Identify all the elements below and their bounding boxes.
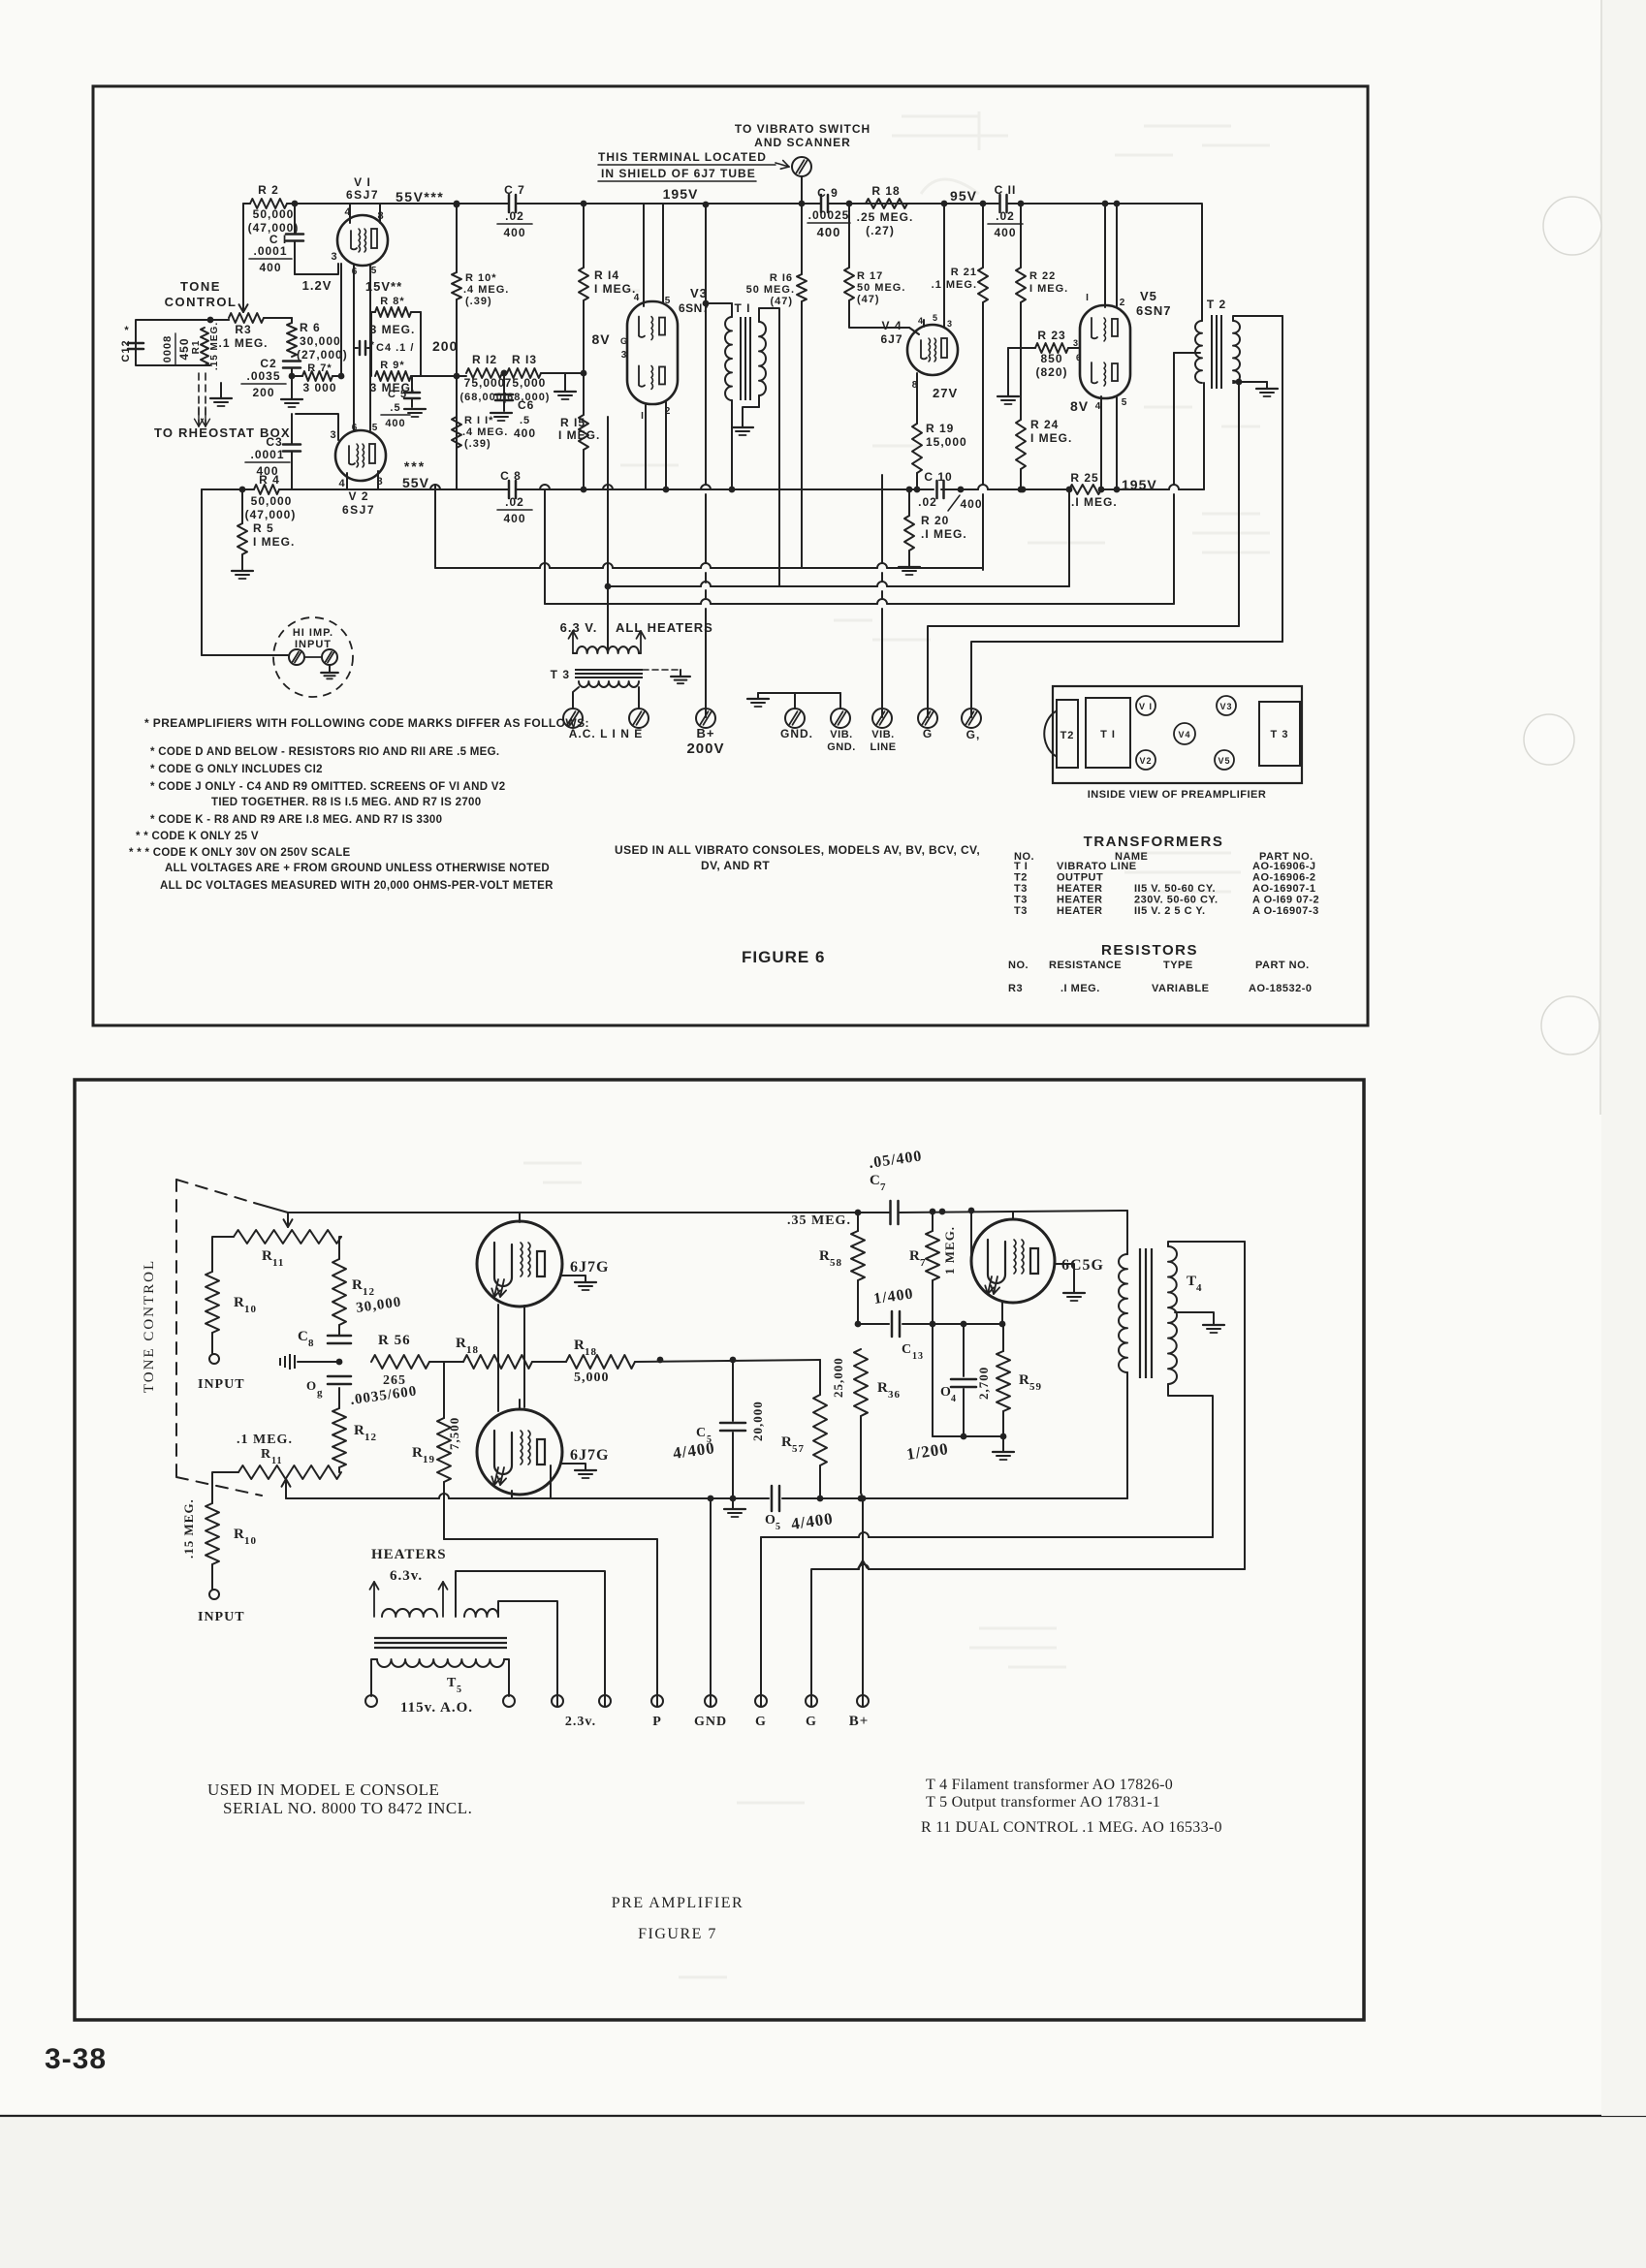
resistor R6	[291, 318, 293, 323]
svg-text:400: 400	[503, 226, 525, 239]
P cathode line from R19	[444, 1538, 657, 1540]
svg-text:20,000: 20,000	[750, 1401, 765, 1441]
svg-text:.15 MEG.: .15 MEG.	[181, 1498, 196, 1559]
svg-text:T3: T3	[1014, 895, 1028, 906]
svg-text:R 20: R 20	[921, 514, 949, 527]
svg-text:6J7G: 6J7G	[570, 1447, 609, 1464]
potentiometer R3	[229, 313, 264, 323]
resistor R1	[201, 328, 208, 365]
node V1 cathode junction	[338, 373, 345, 380]
ground under C2	[291, 368, 293, 399]
svg-text:265: 265	[383, 1373, 406, 1388]
potentiometer R11 lower	[238, 1465, 341, 1479]
svg-text:400: 400	[960, 497, 982, 511]
svg-text:V3: V3	[1219, 702, 1232, 711]
svg-text:R I5: R I5	[560, 416, 586, 429]
resistor R18 second	[532, 1361, 566, 1363]
svg-text:195V: 195V	[663, 186, 699, 202]
punch hole middle	[1524, 714, 1574, 765]
svg-text:4: 4	[1196, 1282, 1203, 1294]
capacitor O4	[963, 1324, 965, 1376]
svg-text:R 6: R 6	[300, 321, 321, 334]
svg-text:*: *	[370, 340, 375, 351]
svg-text:30,000: 30,000	[300, 334, 341, 348]
R10/R11 vertical continues	[456, 376, 458, 489]
svg-text:6C5G: 6C5G	[1061, 1257, 1104, 1274]
svg-text:AO-16906-2: AO-16906-2	[1252, 872, 1316, 884]
tube V5 6SN7	[1080, 305, 1130, 398]
svg-text:8: 8	[308, 1338, 315, 1349]
svg-text:200V: 200V	[686, 740, 724, 757]
svg-text:I MEG.: I MEG.	[558, 428, 600, 442]
ground under C6	[491, 412, 512, 414]
heater drop wire	[607, 417, 609, 649]
6C5G ground	[1055, 1264, 1074, 1292]
capacitor C3	[291, 414, 293, 444]
V3 plate pin4 wire	[643, 204, 645, 306]
resistor R20	[908, 489, 910, 516]
6C5G cathode wire	[1001, 1303, 1003, 1324]
capacitor C5 second	[771, 1486, 774, 1511]
svg-text:.0001: .0001	[250, 448, 284, 461]
R10 lower lead	[211, 1564, 213, 1590]
svg-text:18: 18	[466, 1344, 479, 1356]
svg-text:DV, AND RT: DV, AND RT	[701, 859, 770, 872]
svg-text:400: 400	[385, 418, 405, 429]
svg-text:C12: C12	[120, 339, 132, 362]
resistor R57	[819, 1360, 821, 1395]
bus C hops	[701, 582, 711, 586]
svg-text:ALL VOLTAGES ARE + FROM GRO: ALL VOLTAGES ARE + FROM GROUND UNLESS OT…	[165, 863, 550, 874]
svg-text:(.39): (.39)	[464, 438, 491, 450]
resistor R22	[1020, 204, 1022, 268]
potentiometer R11 upper	[234, 1230, 341, 1244]
svg-text:(.27): (.27)	[866, 224, 895, 237]
svg-text:.0008: .0008	[162, 335, 174, 367]
main B+ bus wire	[295, 203, 509, 205]
svg-text:INPUT: INPUT	[198, 1610, 245, 1624]
svg-text:AND SCANNER: AND SCANNER	[754, 136, 851, 149]
svg-text:18: 18	[585, 1346, 597, 1358]
T2 secondary bottom lead	[1233, 381, 1239, 382]
node R4/R5	[239, 487, 246, 493]
svg-text:19: 19	[423, 1454, 435, 1465]
svg-text:G: G	[755, 1715, 767, 1729]
node R10 top	[454, 202, 460, 208]
svg-text:AO-16906-J: AO-16906-J	[1252, 861, 1316, 872]
G terminal screw	[918, 709, 937, 728]
wire T1 primary top to B+ line	[706, 302, 732, 304]
V5 pin4 wire down	[1100, 396, 1102, 489]
resistor R7 fig7	[932, 1212, 934, 1231]
svg-text:V5: V5	[1218, 756, 1230, 766]
T2 secondary top lead	[1233, 316, 1282, 321]
svg-text:TO VIBRATO SWITCH: TO VIBRATO SWITCH	[735, 122, 870, 136]
svg-text:VIBRATO LINE: VIBRATO LINE	[1057, 861, 1137, 872]
svg-text:IN SHIELD OF 6J7 TUBE: IN SHIELD OF 6J7 TUBE	[601, 167, 756, 180]
capacitor C10	[935, 481, 938, 498]
6J7G tube2 cathode stub down	[511, 1491, 513, 1498]
svg-text:R 7*: R 7*	[307, 362, 332, 374]
svg-text:12: 12	[364, 1432, 377, 1443]
T5 primary winding	[377, 1659, 504, 1667]
svg-text:R 9*: R 9*	[380, 360, 404, 371]
svg-text:(47): (47)	[770, 296, 793, 307]
svg-text:C4 .1 /: C4 .1 /	[376, 342, 414, 354]
svg-text:3-38: 3-38	[45, 2043, 107, 2075]
node C13 left	[855, 1321, 862, 1328]
capacitor C8	[508, 481, 511, 498]
R10 upper lead to input	[211, 1333, 213, 1354]
bus B wire	[435, 567, 540, 569]
svg-text:59: 59	[1029, 1381, 1042, 1393]
B+ terminal drop	[862, 1498, 864, 1706]
resistor R12	[466, 368, 502, 378]
svg-text:R 11 DUAL CONTROL .1 ME: R 11 DUAL CONTROL .1 MEG. AO 16533-0	[921, 1819, 1222, 1836]
svg-text:* CODE K - R8 AND R9 ARE: * CODE K - R8 AND R9 ARE I.8 MEG. AND R7…	[150, 814, 442, 826]
VIB LINE drop	[881, 475, 883, 563]
svg-text:USED IN ALL VIBRATO CONSOLES,: USED IN ALL VIBRATO CONSOLES, MODELS AV,…	[615, 843, 980, 857]
svg-text:6SN7: 6SN7	[1136, 303, 1172, 318]
R3 wiper arrow from R2	[242, 204, 244, 299]
capacitor C11	[998, 195, 1001, 212]
svg-text:(47): (47)	[857, 294, 880, 305]
svg-text:GND.: GND.	[780, 727, 813, 740]
bus D right vertical to T2 tap	[1173, 353, 1175, 485]
svg-text:6.3v.: 6.3v.	[390, 1568, 423, 1584]
svg-text:400: 400	[994, 226, 1016, 239]
resistor R10 lower	[206, 1503, 219, 1564]
svg-text:T I: T I	[1100, 729, 1116, 740]
svg-text:TIED TOGETHER. R8 IS I.5 M: TIED TOGETHER. R8 IS I.5 MEG. AND R7 IS …	[211, 797, 481, 808]
T2 primary top lead	[1201, 205, 1203, 321]
svg-text:THIS TERMINAL LOCATED: THIS TERMINAL LOCATED	[598, 150, 767, 164]
svg-text:I: I	[641, 411, 645, 422]
svg-text:7: 7	[920, 1257, 927, 1269]
svg-text:TONE: TONE	[180, 279, 221, 294]
svg-text:5: 5	[372, 423, 379, 433]
svg-text:R3: R3	[235, 323, 251, 336]
node R21 top	[980, 201, 987, 207]
svg-text:4: 4	[338, 478, 345, 489]
6.3V heater arrows	[573, 652, 577, 654]
wire C12 loop	[136, 320, 229, 351]
2.3v terminal drops	[498, 1601, 557, 1706]
svg-text:10: 10	[244, 1535, 257, 1547]
svg-text:R3: R3	[1008, 983, 1023, 994]
svg-text:II5 V. 2 5 C Y.: II5 V. 2 5 C Y.	[1134, 905, 1206, 917]
G line vertical to T2 secondary bottom	[1238, 382, 1240, 626]
V2 pin8 wire down	[377, 471, 379, 489]
capacitor C9	[820, 195, 823, 212]
svg-text:* PREAMPLIFIERS WITH FOLLOWI: * PREAMPLIFIERS WITH FOLLOWING CODE MARK…	[144, 716, 589, 730]
svg-text:T3: T3	[1014, 905, 1028, 917]
svg-text:HI IMP.: HI IMP.	[293, 627, 333, 639]
svg-text:HEATER: HEATER	[1057, 895, 1102, 906]
node C13 right	[930, 1321, 936, 1328]
svg-text:15V**: 15V**	[365, 279, 402, 294]
node C7 right	[939, 1209, 946, 1215]
svg-text:8V: 8V	[591, 331, 610, 347]
6J7G tube2 plate stub down	[550, 1465, 552, 1498]
main coupling line y=505	[345, 488, 508, 490]
punch hole top	[1543, 197, 1601, 255]
svg-text:.I MEG.: .I MEG.	[1060, 983, 1100, 994]
svg-text:V 2: V 2	[348, 489, 368, 503]
dashed tone control boundary	[175, 1180, 177, 1484]
svg-text:3: 3	[331, 251, 337, 263]
P terminal drop	[656, 1539, 658, 1706]
svg-text:HEATER: HEATER	[1057, 905, 1102, 917]
svg-text:1 MEG.: 1 MEG.	[942, 1226, 957, 1275]
ground under R59	[1002, 1436, 1004, 1451]
R8/R9 left vertical	[370, 312, 372, 376]
resistor R10	[456, 205, 458, 272]
svg-text:HEATERS: HEATERS	[371, 1547, 447, 1562]
svg-text:C6: C6	[518, 398, 534, 412]
ground under R5	[232, 570, 253, 572]
svg-text:7,500: 7,500	[447, 1417, 461, 1450]
node R7 left	[289, 373, 296, 380]
ground T2 secondary bottom	[1256, 388, 1278, 390]
node B+ top	[703, 202, 710, 208]
T5 winding leads	[371, 1659, 377, 1696]
svg-text:OUTPUT: OUTPUT	[1057, 872, 1103, 884]
V1 cathode pin3 wire down	[340, 264, 342, 376]
svg-text:RESISTORS: RESISTORS	[1101, 942, 1198, 959]
svg-text:.25 MEG.: .25 MEG.	[857, 210, 914, 224]
svg-text:3: 3	[947, 319, 953, 329]
6C5G grid wire	[970, 1211, 972, 1261]
svg-text:R: R	[261, 1447, 271, 1462]
svg-text:.1 MEG.: .1 MEG.	[237, 1433, 293, 1447]
input terminal screw left	[289, 649, 304, 665]
svg-text:A O-I69 07-2: A O-I69 07-2	[1252, 895, 1319, 906]
R8/R9 right vertical	[420, 312, 422, 376]
wire to R3	[210, 319, 229, 321]
svg-text:V I: V I	[354, 175, 371, 189]
svg-text:5: 5	[457, 1685, 462, 1695]
svg-text:200: 200	[432, 338, 458, 354]
svg-text:4: 4	[634, 293, 641, 303]
svg-text:5: 5	[665, 296, 672, 306]
svg-text:R I I*: R I I*	[464, 415, 493, 426]
bus B hops	[540, 563, 550, 568]
V3 pin5 wire	[662, 204, 664, 302]
capacitor C6	[503, 373, 505, 394]
svg-text:V 4: V 4	[881, 319, 902, 332]
svg-text:R 4: R 4	[259, 473, 280, 487]
tube V3 6SN7	[627, 301, 678, 404]
svg-text:25,000: 25,000	[831, 1357, 845, 1398]
tube 6C5G	[971, 1219, 1055, 1303]
T1 block inside view	[1086, 698, 1130, 768]
T3 block inside view	[1259, 702, 1300, 766]
node R17 top	[846, 201, 853, 207]
ground stub R23	[1007, 348, 1009, 395]
svg-text:R 24: R 24	[1030, 418, 1059, 431]
svg-text:6SJ7: 6SJ7	[342, 503, 375, 517]
T4 secondary bottom lead	[1168, 1384, 1213, 1537]
6C5G plate stub	[1012, 1212, 1014, 1219]
svg-text:T3: T3	[1014, 883, 1028, 895]
6J7G tube2 stubs up	[497, 1362, 499, 1411]
svg-text:R 8*: R 8*	[380, 296, 404, 307]
G prime vertical to T2 secondary top	[1282, 316, 1283, 642]
svg-text:R 23: R 23	[1037, 329, 1065, 342]
V4 grid cap stub	[923, 320, 925, 327]
node V5 plate top	[1114, 201, 1121, 207]
svg-text:(.39): (.39)	[465, 296, 492, 307]
svg-text:5,000: 5,000	[574, 1370, 610, 1385]
svg-text:C2: C2	[260, 357, 276, 370]
svg-text:***: ***	[404, 458, 426, 474]
svg-text:NO.: NO.	[1008, 960, 1029, 971]
terminal circles bottom row	[365, 1695, 377, 1707]
svg-text:T I: T I	[735, 301, 751, 315]
V2 circle inside view	[1136, 750, 1155, 770]
svg-text:T 3: T 3	[1271, 729, 1289, 740]
resistor R25	[1069, 485, 1101, 494]
R7 lower vertical	[932, 1324, 934, 1436]
faint bleed-through ghosts	[523, 111, 1270, 1977]
T3 dashed ground lead	[643, 669, 681, 671]
capacitor C2	[283, 360, 301, 362]
svg-text:I MEG.: I MEG.	[1029, 283, 1068, 295]
6J7G lower top stub	[519, 1400, 521, 1409]
bus C right vertical	[1068, 491, 1070, 586]
svg-text:R I2: R I2	[472, 353, 497, 366]
svg-text:LINE: LINE	[870, 741, 896, 753]
GND terminal drop	[710, 1498, 712, 1706]
resistor R58	[857, 1213, 859, 1231]
VIB LINE terminal screw	[872, 709, 892, 728]
svg-text:g: g	[317, 1387, 324, 1399]
svg-text:850: 850	[1040, 352, 1062, 365]
node C8-Cg mid	[336, 1359, 343, 1366]
svg-text:95V: 95V	[950, 188, 977, 204]
svg-text:C3: C3	[266, 435, 282, 449]
V4 circle inside view	[1174, 723, 1195, 744]
svg-text:* CODE G ONLY INCLUDES CI: * CODE G ONLY INCLUDES CI2	[150, 764, 323, 775]
svg-text:C 7: C 7	[504, 183, 525, 197]
svg-text:V4: V4	[1178, 730, 1190, 740]
svg-text:.5: .5	[520, 415, 530, 426]
svg-text:58: 58	[830, 1257, 842, 1269]
node R24 bottom	[1018, 487, 1025, 493]
svg-text:RESISTANCE: RESISTANCE	[1049, 960, 1122, 971]
resistor R7	[292, 375, 302, 377]
svg-text:11: 11	[271, 1456, 282, 1466]
transformer T4	[1119, 1254, 1127, 1372]
bottom line 1/200 network	[933, 1435, 1003, 1437]
svg-text:50 MEG.: 50 MEG.	[857, 282, 905, 294]
G2 terminal line to T4 secondary top	[811, 1569, 859, 1706]
resistor R8	[371, 311, 375, 313]
node R36 bottom	[858, 1496, 865, 1502]
svg-text:C 5: C 5	[388, 389, 407, 400]
V5 pin1 wire	[1104, 204, 1106, 307]
wire R9 to R12	[411, 375, 466, 377]
capacitor C5	[411, 376, 413, 392]
svg-text:R 21: R 21	[951, 267, 977, 278]
V3 pin1 wire down	[645, 405, 647, 489]
node R3 left	[207, 317, 214, 324]
capacitor C1	[294, 204, 296, 234]
T5 core	[374, 1638, 507, 1648]
bus C wire	[608, 585, 701, 587]
svg-text:7: 7	[880, 1181, 887, 1193]
svg-text:.02: .02	[918, 495, 937, 509]
tube V4 6J7	[907, 325, 958, 375]
svg-text:I: I	[1086, 293, 1090, 303]
svg-text:FIGURE 6: FIGURE 6	[742, 948, 825, 966]
tube 6J7G lower	[477, 1409, 562, 1495]
paper bottom edge	[0, 2115, 1646, 2117]
tube V2 6SJ7	[335, 430, 386, 481]
svg-text:G: G	[806, 1715, 817, 1729]
svg-text:55V***: 55V***	[396, 189, 444, 205]
svg-text:1.2V: 1.2V	[302, 278, 332, 293]
V4 plate wire	[943, 206, 945, 327]
svg-text:400: 400	[817, 225, 841, 239]
6J7G tube1 cathode stubs down	[497, 1305, 499, 1362]
svg-text:V5: V5	[1140, 289, 1157, 303]
svg-text:HEATER: HEATER	[1057, 883, 1102, 895]
svg-text:USED IN MODEL E CONSOLE: USED IN MODEL E CONSOLE	[207, 1780, 439, 1799]
hop marks on 505 line	[430, 485, 440, 489]
V1 pin8 wire	[379, 205, 381, 223]
svg-text:15,000: 15,000	[926, 435, 967, 449]
svg-text:230V. 50-60 CY.: 230V. 50-60 CY.	[1134, 895, 1219, 906]
capacitor Cg fig7	[328, 1375, 351, 1378]
svg-text:T 2: T 2	[1207, 298, 1226, 311]
G prime terminal screw	[962, 709, 981, 728]
svg-text:50,000: 50,000	[253, 207, 295, 221]
node R19 bottom	[914, 487, 921, 493]
svg-text:R 17: R 17	[857, 270, 883, 282]
svg-text:INSIDE VIEW OF PREAMPLIF: INSIDE VIEW OF PREAMPLIFIER	[1088, 789, 1267, 801]
resistor R16	[801, 204, 803, 274]
input jack upper	[209, 1354, 219, 1364]
node V3 pin2 bottom	[663, 487, 670, 493]
svg-text:5: 5	[371, 266, 378, 276]
svg-text:C 9: C 9	[817, 186, 839, 200]
node R18 out	[657, 1357, 664, 1364]
node R22 top	[1018, 201, 1025, 207]
svg-text:(27,000): (27,000)	[297, 348, 348, 362]
capacitor C5 first	[732, 1360, 734, 1421]
svg-text:AO-18532-0: AO-18532-0	[1249, 983, 1313, 994]
R11 upper wiper arrow	[287, 1213, 289, 1227]
svg-text:.5: .5	[390, 402, 400, 414]
svg-text:R I6: R I6	[770, 272, 793, 284]
ground under T1	[732, 426, 753, 428]
6J7G lower ground	[560, 1464, 586, 1469]
resistor R36	[854, 1349, 868, 1416]
svg-text:.02: .02	[996, 209, 1015, 223]
svg-text:P: P	[652, 1715, 662, 1729]
svg-text:.4 MEG.: .4 MEG.	[462, 426, 508, 438]
svg-text:V I: V I	[1139, 702, 1153, 711]
left input vertical wire	[201, 489, 203, 655]
capacitor C7 fig7	[889, 1201, 892, 1224]
paper right edge strip	[1601, 0, 1646, 2116]
svg-text:3 000: 3 000	[302, 381, 336, 394]
resistor R12 upper	[332, 1259, 346, 1325]
svg-text:T I: T I	[1014, 861, 1028, 872]
svg-text:.1 MEG.: .1 MEG.	[218, 336, 268, 350]
